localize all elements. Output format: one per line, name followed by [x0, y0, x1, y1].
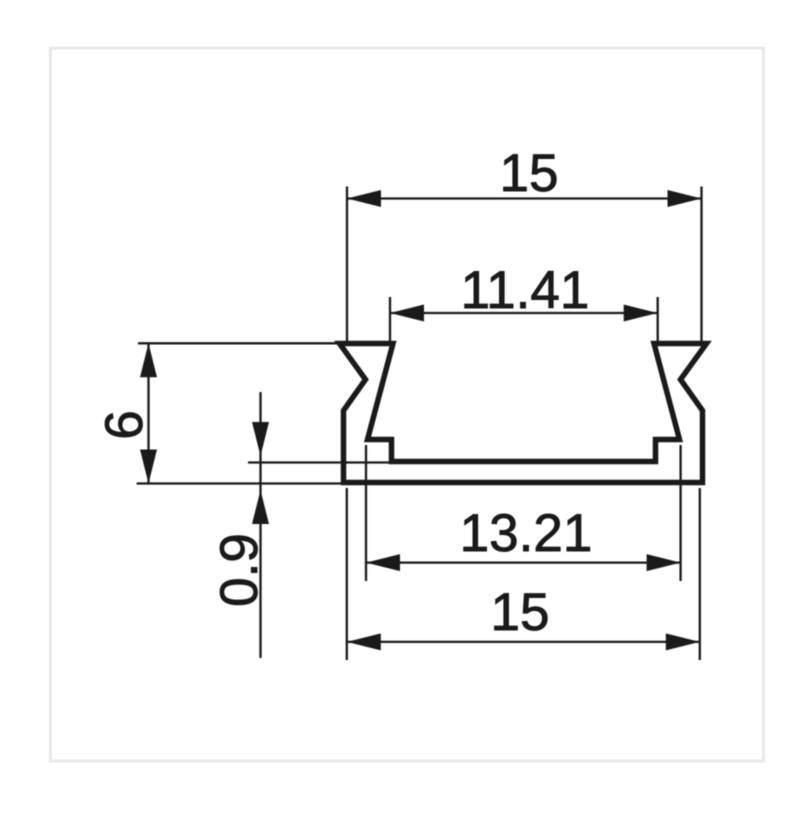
- svg-text:0.9: 0.9: [210, 533, 269, 607]
- svg-text:11.41: 11.41: [461, 261, 590, 320]
- svg-text:15: 15: [500, 144, 559, 203]
- svg-text:6: 6: [95, 410, 154, 439]
- svg-text:15: 15: [491, 583, 550, 642]
- svg-text:13.21: 13.21: [460, 504, 593, 563]
